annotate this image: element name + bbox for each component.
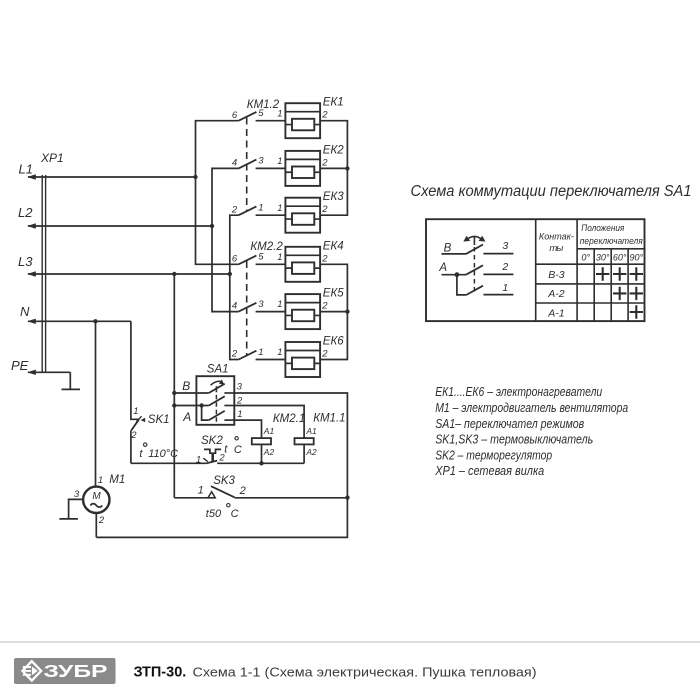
heater EK5 — [277, 288, 344, 330]
contact KM2.2 pole 4-3 — [232, 299, 285, 312]
table diagram: contact A-2 — [438, 261, 513, 277]
svg-text:SА1– переключател режимов: SА1– переключател режимов — [435, 417, 584, 431]
svg-text:1: 1 — [133, 406, 138, 417]
contact KM2.2 pole 6-5 — [232, 252, 285, 265]
svg-text:ЕК1....ЕК6 – электронагревател: ЕК1....ЕК6 – электронагреватели — [435, 385, 602, 399]
svg-text:XP1: XP1 — [40, 151, 64, 165]
svg-text:SA1: SA1 — [207, 363, 229, 375]
svg-text:L2: L2 — [18, 205, 33, 220]
wire L3 to KM1.2 pin2 / KM2.2 pin2 — [228, 215, 239, 359]
svg-text:М1: М1 — [109, 474, 125, 486]
svg-text:переключателя: переключателя — [580, 236, 643, 247]
wire SK2 to coils rail — [217, 461, 304, 465]
svg-text:ЕК1: ЕК1 — [323, 97, 344, 109]
svg-text:1: 1 — [258, 347, 263, 358]
switch SA1 — [174, 363, 243, 425]
svg-text:1: 1 — [277, 108, 282, 119]
ground PE — [62, 372, 81, 389]
table plus marks — [596, 267, 643, 318]
svg-text:4: 4 — [232, 301, 237, 312]
table row labels — [547, 269, 565, 320]
svg-text:1: 1 — [277, 299, 282, 310]
svg-text:1: 1 — [502, 282, 508, 294]
legend — [434, 385, 628, 478]
net N wire — [20, 304, 131, 324]
svg-text:ЗУБР: ЗУБР — [44, 661, 108, 681]
svg-text:Схема коммутации переключателя: Схема коммутации переключателя SA1 — [411, 183, 692, 200]
svg-text:ЕК3: ЕК3 — [323, 191, 344, 203]
logo ЗУБР — [14, 658, 116, 684]
svg-text:2: 2 — [321, 349, 328, 360]
thermostat SK2 — [196, 435, 242, 466]
contactor coil KM1.1 — [234, 406, 345, 464]
svg-text:3: 3 — [258, 156, 264, 167]
svg-text:2: 2 — [321, 110, 328, 121]
svg-text:В: В — [444, 242, 452, 254]
svg-text:А1: А1 — [263, 426, 275, 436]
svg-text:2: 2 — [130, 430, 137, 441]
svg-text:ХР1 – сетевая вилка: ХР1 – сетевая вилка — [434, 464, 544, 478]
svg-text:М: М — [92, 491, 101, 502]
svg-text:А2: А2 — [263, 447, 275, 457]
label KM2.2 — [250, 241, 283, 253]
svg-text:2: 2 — [321, 157, 328, 168]
star bus EK1-EK3 — [320, 121, 349, 216]
svg-text:А: А — [182, 410, 191, 424]
svg-text:В-3: В-3 — [548, 269, 565, 281]
ground (motor) — [59, 518, 78, 520]
svg-text:ЕК4: ЕК4 — [323, 240, 344, 252]
svg-text:2: 2 — [231, 349, 238, 360]
svg-text:SK1,SK3 – термовыключатель: SK1,SK3 – термовыключатель — [435, 433, 593, 447]
net L1 wire — [19, 162, 196, 180]
svg-text:2: 2 — [501, 261, 508, 273]
wire L2 to KM1.2 pin4 / KM2.2 pin4 — [210, 168, 239, 311]
svg-text:А-2: А-2 — [547, 288, 565, 300]
svg-text:1: 1 — [98, 475, 103, 486]
svg-text:2: 2 — [239, 485, 246, 497]
wire SA1 pin3 to SK3/motor node — [96, 393, 349, 537]
net PE wire — [11, 358, 70, 375]
wire M1 pin3 to ground — [69, 499, 84, 519]
heater EK3 — [277, 191, 344, 233]
title: Схема коммутации переключателя SA1 — [411, 183, 692, 200]
contact KM1.2 pole 2-1 — [231, 203, 285, 216]
contact KM1.2 pole 4-3 — [232, 156, 285, 169]
heater EK6 — [277, 336, 344, 378]
svg-text:ЕК5: ЕК5 — [323, 288, 344, 300]
svg-text:1: 1 — [198, 484, 204, 496]
svg-text:5: 5 — [258, 252, 264, 263]
table diagram: contact A-1 — [457, 275, 514, 295]
svg-text:110°С: 110°С — [148, 448, 178, 460]
svg-text:N: N — [20, 304, 30, 319]
contact KM2.2 pole 2-1 — [231, 347, 285, 360]
svg-text:ты: ты — [549, 243, 563, 254]
linkage dashed KM2.2 — [246, 261, 248, 356]
wire L3 to SA1 common and SK3 — [172, 272, 176, 498]
svg-text:t: t — [139, 448, 143, 460]
net L2 wire — [18, 205, 212, 229]
heater EK1 — [277, 97, 343, 139]
svg-text:t: t — [224, 443, 228, 455]
table frame — [426, 219, 645, 321]
net L3 wire — [18, 254, 230, 277]
svg-text:3: 3 — [237, 382, 243, 393]
star bus EK4-EK6 — [320, 264, 349, 359]
wire L1 to KM1.2 pin6 / KM2.2 pin6 — [193, 121, 238, 265]
svg-text:L3: L3 — [18, 254, 33, 269]
svg-text:М1 – электродвигатель вентилят: М1 – электродвигатель вентилятора — [435, 401, 628, 415]
svg-text:3: 3 — [502, 240, 508, 252]
svg-text:ЕК2: ЕК2 — [323, 144, 344, 156]
svg-text:SK2 – терморегулятор: SK2 – терморегулятор — [435, 448, 552, 462]
svg-text:2: 2 — [231, 204, 238, 215]
svg-text:30°: 30° — [596, 253, 610, 263]
svg-text:А-1: А-1 — [547, 307, 564, 319]
svg-text:SK1: SK1 — [148, 414, 170, 426]
svg-text:6: 6 — [232, 253, 238, 264]
label KM1.2 — [247, 99, 280, 111]
svg-text:КМ1.1: КМ1.1 — [313, 413, 345, 425]
svg-text:КМ1.2: КМ1.2 — [247, 99, 280, 111]
svg-text:SK3: SK3 — [213, 475, 235, 487]
svg-text:А: А — [438, 262, 447, 274]
svg-text:Схема 1-1 (Схема электрическая: Схема 1-1 (Схема электрическая. Пушка те… — [193, 664, 537, 679]
svg-text:А1: А1 — [305, 426, 317, 436]
svg-text:6: 6 — [232, 110, 238, 121]
svg-text:Контак-: Контак- — [539, 231, 574, 242]
svg-text:1: 1 — [277, 347, 282, 358]
svg-text:КМ2.1: КМ2.1 — [273, 413, 305, 425]
svg-text:ЗТП-30.: ЗТП-30. — [134, 664, 187, 680]
svg-text:60°: 60° — [613, 253, 627, 263]
svg-text:В: В — [182, 379, 190, 393]
svg-text:1: 1 — [237, 409, 242, 420]
footer separator — [0, 641, 700, 643]
wire N to motor M1 — [93, 319, 97, 487]
svg-text:90°: 90° — [629, 253, 643, 263]
svg-text:3: 3 — [74, 489, 80, 500]
table diagram: linkage — [473, 247, 475, 295]
contact KM1.2 pole 6-5 — [232, 108, 285, 121]
svg-text:С: С — [231, 508, 239, 520]
table diagram: rotary arrow — [463, 236, 485, 245]
heater EK4 — [277, 240, 343, 281]
svg-text:1: 1 — [258, 203, 263, 214]
svg-text:ЕК6: ЕК6 — [323, 336, 344, 348]
svg-text:2: 2 — [321, 301, 328, 312]
wire M1 pin2 to bottom rail — [95, 513, 97, 537]
svg-text:L1: L1 — [19, 162, 33, 177]
svg-text:3: 3 — [258, 299, 264, 310]
svg-text:4: 4 — [232, 158, 237, 169]
svg-text:PE: PE — [11, 358, 29, 373]
table diagram: contact B-3 — [442, 240, 514, 255]
svg-text:2: 2 — [321, 253, 328, 264]
svg-text:SK2: SK2 — [201, 435, 223, 447]
heater EK2 — [277, 144, 344, 186]
svg-text:1: 1 — [277, 203, 282, 214]
table headers — [539, 223, 644, 262]
linkage dashed KM1.2 — [246, 118, 248, 212]
motor M1 — [74, 474, 125, 526]
footer text — [134, 664, 537, 680]
svg-text:0°: 0° — [581, 253, 590, 263]
wire SK1 to SK2 — [131, 462, 207, 464]
svg-text:2: 2 — [98, 515, 105, 526]
svg-text:1: 1 — [196, 455, 201, 466]
thermal switch SK1 — [130, 321, 178, 463]
svg-text:А2: А2 — [305, 447, 317, 457]
svg-text:1: 1 — [277, 252, 282, 263]
thermal switch SK3 — [174, 475, 347, 520]
contactor coil KM2.1 — [234, 413, 305, 463]
svg-text:t50: t50 — [206, 508, 222, 520]
svg-text:2: 2 — [321, 204, 328, 215]
svg-text:1: 1 — [277, 156, 282, 167]
svg-text:С: С — [234, 444, 242, 456]
svg-text:Положения: Положения — [581, 223, 624, 234]
plug XP1 — [40, 151, 64, 372]
